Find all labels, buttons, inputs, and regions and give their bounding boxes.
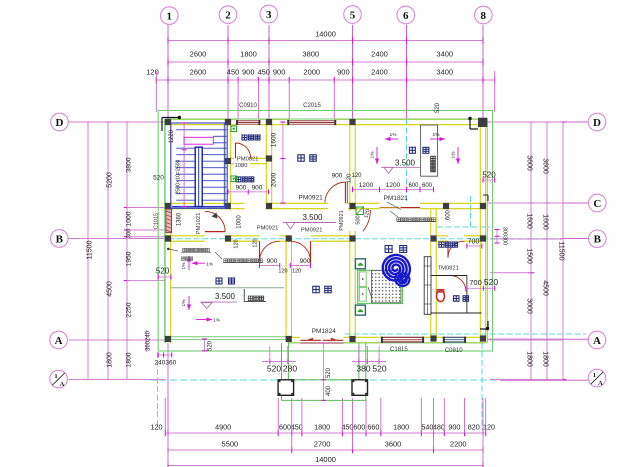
svg-text:1360: 1360 [177, 212, 183, 226]
svg-text:2000: 2000 [271, 172, 278, 187]
door PM1821 leader [387, 202, 401, 210]
right witness horizontals [490, 121, 563, 123]
svg-text:240: 240 [155, 360, 166, 367]
wall axis3 vertical [265, 119, 267, 203]
window C1015 left wall [166, 209, 172, 233]
svg-text:480: 480 [433, 423, 445, 432]
left small dims 240 360 near A [146, 330, 148, 352]
wall D exterior top [165, 118, 236, 120]
staircase center stringer [195, 147, 202, 206]
grid bubble 1/A left [50, 370, 68, 388]
svg-text:520: 520 [372, 364, 386, 374]
svg-text:2400: 2400 [371, 50, 388, 59]
svg-text:1%: 1% [181, 262, 187, 270]
svg-text:TM0821: TM0821 [438, 266, 459, 272]
svg-text:120: 120 [146, 68, 159, 77]
porch left dim 520 vertical [204, 339, 206, 351]
room label secondary bedroom bottom [313, 286, 320, 293]
svg-text:450: 450 [291, 423, 303, 432]
grid axis line 1/A horizontal [69, 379, 151, 381]
right dimension column 3600 1600 1500 3000 1800 [530, 122, 532, 380]
svg-text:2500×10=2500: 2500×10=2500 [175, 159, 181, 194]
room label bathroom right [454, 296, 460, 302]
svg-text:2200: 2200 [450, 440, 467, 449]
left dimension column 3800 1000 300 1950 2250 1800 [126, 122, 128, 380]
balcony slope arrow horizontal bottom [196, 319, 212, 321]
svg-text:900: 900 [252, 184, 263, 191]
dimension row second top [168, 61, 483, 63]
drain note leader and label [243, 289, 245, 302]
handrail note [167, 248, 170, 251]
bed pillows [359, 272, 366, 287]
grid axis 6 cyan centerline balcony [406, 119, 408, 202]
cyan centerline wardrobe horizontal [437, 226, 490, 228]
grid axis line B horizontal [69, 238, 166, 240]
svg-text:1200: 1200 [386, 182, 401, 189]
svg-text:A: A [60, 381, 65, 388]
svg-text:3: 3 [266, 9, 272, 21]
svg-text:D: D [56, 117, 64, 129]
svg-text:B: B [56, 233, 64, 245]
svg-text:1800: 1800 [126, 352, 133, 367]
svg-text:PM0921: PM0921 [298, 195, 323, 202]
wall axis5 vertical upper [349, 125, 351, 204]
water shaft rect [421, 125, 438, 176]
balcony slope arrow left [385, 138, 398, 140]
dim 700 wardrobe [467, 245, 482, 247]
svg-text:520: 520 [208, 340, 214, 351]
svg-text:2250: 2250 [126, 302, 133, 317]
grid bubble C right [589, 194, 607, 212]
svg-text:600: 600 [353, 423, 365, 432]
wall x433.5 vertical closet lower [430, 241, 432, 337]
svg-text:4900: 4900 [215, 423, 231, 432]
svg-text:660: 660 [367, 423, 379, 432]
svg-text:5: 5 [350, 9, 356, 21]
staircase dim line magenta [183, 123, 185, 207]
svg-text:900: 900 [242, 68, 255, 77]
grid axis line 1/A cyan centerline [150, 379, 500, 381]
svg-text:11500: 11500 [558, 242, 565, 261]
grid bubble A right [588, 331, 606, 349]
door PM1021 stair hall [205, 231, 225, 233]
svg-text:2: 2 [225, 10, 231, 22]
grid bubble 3 [260, 5, 278, 23]
svg-text:360: 360 [165, 360, 176, 367]
svg-text:600: 600 [279, 423, 291, 432]
svg-text:6: 6 [403, 10, 409, 22]
bath partition lines [431, 275, 467, 277]
dims 700 520 right bath [467, 287, 495, 289]
bedside table 1 [355, 259, 365, 269]
svg-text:900: 900 [236, 184, 247, 191]
door leaf in axis5 wall [363, 210, 371, 231]
svg-text:C1015: C1015 [154, 213, 160, 229]
balcony slope arrow up [188, 256, 190, 270]
balcony drainage channel line [171, 287, 284, 289]
svg-text:PM0921: PM0921 [257, 226, 279, 232]
svg-text:820: 820 [468, 423, 480, 432]
dimension row third bottom 14000 [168, 465, 483, 467]
porch dims 520 280 [262, 361, 296, 363]
grid bubble 2 [219, 6, 237, 24]
grid bubble B left [51, 230, 69, 248]
svg-text:3.500: 3.500 [395, 158, 416, 167]
grid bubble 6 [397, 6, 415, 24]
svg-text:4500: 4500 [542, 280, 549, 296]
svg-text:PM0921: PM0921 [301, 227, 323, 233]
svg-text:2000: 2000 [303, 68, 320, 77]
svg-text:1%: 1% [433, 132, 441, 138]
svg-text:2700: 2700 [314, 440, 331, 449]
svg-text:600: 600 [408, 183, 419, 189]
grid axis line 8 vertical [482, 25, 484, 124]
svg-text:A: A [55, 335, 63, 347]
bath fixture green square 2 [231, 176, 237, 182]
wall x433.5 vertical closet upper [430, 209, 432, 236]
right dimension column 11500 [562, 122, 564, 380]
grid axis line 2 vertical [227, 25, 229, 124]
grid axis 8 cyan centerline bottom [481, 343, 483, 430]
svg-text:1800: 1800 [240, 50, 257, 59]
staircase treads [176, 147, 226, 149]
svg-text:3800: 3800 [302, 50, 319, 59]
svg-text:3400: 3400 [436, 68, 453, 77]
grid axis line C horizontal [487, 202, 588, 204]
bed sheet fold line [368, 287, 374, 303]
window C0910 top [238, 120, 258, 125]
right dimension column 3600 1600 4500 1800 [546, 122, 548, 380]
balcony slope arrow down-right [457, 147, 459, 164]
svg-text:120: 120 [278, 269, 287, 275]
svg-text:1: 1 [167, 10, 173, 22]
svg-text:900: 900 [267, 258, 278, 265]
svg-text:700: 700 [469, 278, 482, 287]
structural columns dark squares [165, 119, 171, 125]
svg-text:1%: 1% [451, 151, 457, 159]
svg-text:11500: 11500 [87, 240, 94, 259]
cyan centerline wardrobe vertical [470, 196, 472, 227]
porch dims 380 520 [352, 361, 386, 363]
svg-text:C: C [593, 198, 601, 210]
window C1815 bottom [382, 337, 423, 343]
svg-text:C1815: C1815 [390, 347, 408, 353]
threshold note bottom [224, 259, 227, 262]
cyan centerline bottom-left vertical [157, 352, 159, 430]
svg-text:1%: 1% [390, 132, 398, 138]
grid axis line D horizontal [69, 121, 166, 123]
room label secondary bedroom top [298, 155, 305, 162]
wall axis2 stair right [224, 119, 226, 203]
outer slab edge green rectangle [158, 111, 492, 352]
bath fixture green square 1 [231, 126, 237, 132]
svg-text:C0910: C0910 [239, 103, 257, 109]
door wardrobe room on wall B [447, 241, 449, 257]
wall A exterior bottom right part [288, 336, 300, 338]
witness lines bottom [164, 398, 166, 433]
svg-text:PM1824: PM1824 [312, 328, 337, 335]
svg-text:450: 450 [341, 423, 353, 432]
dimension row first bottom [165, 432, 485, 434]
svg-text:1000: 1000 [237, 215, 243, 229]
svg-text:400: 400 [326, 385, 332, 396]
bed quilt blue spiral [383, 255, 410, 283]
section mark bottom-right [480, 328, 488, 330]
svg-text:1800: 1800 [526, 351, 533, 367]
svg-text:360: 360 [146, 340, 152, 351]
wash room dim 900 900 [228, 191, 269, 193]
svg-text:1800: 1800 [393, 423, 409, 432]
room label master bedroom [385, 246, 392, 253]
grid bubble D left [51, 113, 69, 131]
grid axis line A cyan centerline [345, 333, 586, 335]
svg-text:900: 900 [337, 68, 350, 77]
svg-text:1950: 1950 [126, 251, 133, 266]
left dimension column 11500 [87, 122, 89, 380]
svg-text:120: 120 [253, 238, 259, 247]
wash room label [236, 177, 241, 182]
svg-text:1080: 1080 [235, 163, 248, 169]
svg-text:1220: 1220 [169, 129, 175, 143]
svg-text:900: 900 [300, 258, 311, 265]
grid bubble 1/A right [588, 369, 606, 387]
porch column left [278, 380, 294, 396]
svg-text:540: 540 [421, 423, 433, 432]
svg-text:1800: 1800 [542, 351, 549, 367]
svg-text:1%: 1% [181, 299, 187, 307]
svg-text:1600: 1600 [542, 214, 549, 230]
svg-text:1600: 1600 [526, 213, 533, 229]
svg-text:C0910: C0910 [445, 348, 463, 354]
door PM0821 bathroom [235, 143, 237, 158]
grid bubble A left [50, 331, 68, 349]
floor drain green square near column C5 [356, 207, 364, 215]
balcony slope arrow horizontal top [192, 262, 205, 264]
svg-text:1500: 1500 [526, 248, 533, 264]
dim line vertical axis3 1600 2000 [282, 122, 284, 203]
svg-text:C2015: C2015 [303, 103, 321, 109]
svg-text:1%: 1% [206, 262, 214, 268]
section mark top-left [162, 117, 180, 119]
metal rail note [181, 257, 184, 260]
svg-text:520: 520 [484, 277, 498, 287]
wall B interior [165, 235, 204, 237]
svg-text:450: 450 [257, 68, 270, 77]
dimension row third top [156, 79, 494, 81]
toilet red [437, 290, 445, 301]
svg-text:1: 1 [593, 372, 596, 379]
svg-text:2400: 2400 [371, 68, 388, 77]
wall x288.75 vertical bedroom-balcony [285, 241, 287, 337]
bedside table 2 [355, 305, 365, 315]
svg-text:3.500: 3.500 [215, 292, 236, 301]
wall axis1 exterior left [164, 119, 166, 208]
grid axis line 1 vertical [167, 25, 169, 124]
svg-text:600: 600 [446, 209, 452, 220]
svg-text:380: 380 [356, 364, 370, 374]
svg-text:280: 280 [283, 364, 297, 374]
grid bubble 8 [475, 6, 493, 24]
grid axis line A horizontal [69, 339, 166, 341]
svg-text:2600: 2600 [190, 50, 207, 59]
balcony slope arrow right [430, 138, 445, 140]
wall axis5 vertical corridor section [349, 209, 351, 211]
svg-text:3600: 3600 [542, 158, 549, 174]
svg-text:1600: 1600 [271, 132, 278, 147]
svg-text:1000: 1000 [126, 211, 133, 226]
porch vertical dim 520 400 [323, 343, 325, 400]
svg-text:520: 520 [153, 175, 164, 182]
wardrobe closet rectangle [424, 257, 431, 315]
svg-text:PM1021: PM1021 [196, 213, 202, 235]
grid axis line B cyan centerline [168, 238, 560, 240]
balcony slope arrow down-left [376, 147, 378, 164]
svg-text:5200: 5200 [107, 172, 114, 188]
svg-text:520: 520 [435, 102, 441, 113]
left witness horizontals [69, 121, 166, 123]
svg-text:14000: 14000 [315, 30, 336, 39]
room label wardrobe [439, 242, 444, 247]
bed frame [358, 270, 403, 303]
window C2015 top [289, 120, 334, 125]
staircase right rail blue [223, 124, 225, 208]
balcony dim 520 left [158, 276, 171, 278]
svg-text:1%: 1% [213, 318, 221, 324]
svg-text:120: 120 [351, 173, 362, 179]
svg-text:120: 120 [292, 269, 301, 275]
bathroom label top [242, 135, 247, 140]
svg-text:600: 600 [422, 183, 433, 189]
grid bubble B right [589, 230, 607, 248]
door PM1821 balcony leaves [380, 207, 400, 209]
svg-text:120: 120 [483, 423, 495, 432]
svg-text:1: 1 [54, 373, 57, 380]
section mark top-right [469, 118, 471, 129]
grid axis line 6 vertical [406, 25, 408, 124]
svg-text:14000: 14000 [315, 455, 336, 464]
wall C interior [165, 202, 244, 204]
svg-text:120: 120 [234, 239, 240, 248]
svg-text:3.500: 3.500 [302, 213, 323, 222]
grid bubble 5 [344, 6, 362, 24]
svg-text:520: 520 [156, 267, 170, 276]
svg-text:PM0921: PM0921 [339, 210, 345, 231]
svg-text:700: 700 [468, 239, 480, 246]
svg-text:3000: 3000 [526, 298, 533, 314]
witness lines top windows [237, 80, 239, 119]
svg-text:900: 900 [273, 68, 286, 77]
dimension row second bottom [168, 449, 483, 451]
svg-text:D: D [593, 117, 601, 129]
door PM1824 bottom double leaf [300, 339, 321, 341]
porch column right [352, 380, 368, 396]
staircase magenta box [184, 137, 213, 144]
svg-text:120: 120 [151, 423, 163, 432]
svg-text:520: 520 [267, 364, 281, 374]
grid axis line 5 vertical [352, 25, 354, 124]
svg-text:240: 240 [146, 330, 152, 341]
svg-text:8: 8 [481, 10, 487, 22]
svg-text:3600: 3600 [385, 440, 402, 449]
wall axis8 exterior right [479, 119, 481, 343]
balcony label bottom left [216, 278, 222, 284]
svg-text:1200: 1200 [359, 182, 374, 189]
section bracket right wall [483, 194, 488, 196]
wall B dims 900 120 120 900 [260, 265, 280, 267]
left dimension column 5200 4500 1800 [107, 122, 109, 380]
threshold note under PM1821 [390, 211, 398, 217]
wall A balcony parapet left part [165, 336, 288, 338]
grid bubble D right [588, 113, 606, 131]
svg-text:500: 500 [356, 215, 362, 224]
grid bubble 1 [161, 7, 179, 25]
svg-text:A: A [593, 335, 601, 347]
svg-text:520: 520 [482, 171, 496, 180]
svg-text:A: A [598, 380, 603, 387]
bathroom divider wall horizontal [231, 157, 234, 159]
svg-text:2600: 2600 [190, 68, 207, 77]
svg-text:B: B [594, 234, 602, 246]
door PM0921 main on wall C [344, 182, 346, 203]
balcony slope arrow down [188, 296, 190, 310]
svg-text:3600: 3600 [526, 155, 533, 171]
svg-text:PM0821: PM0821 [237, 156, 259, 162]
balcony dim 520 right [483, 179, 495, 181]
window C0910 bottom [444, 337, 465, 343]
svg-text:450: 450 [227, 68, 240, 77]
svg-text:900: 900 [332, 173, 343, 180]
right small dim 300 300 vertical [496, 230, 498, 244]
porch outline green [281, 343, 283, 400]
door PM0921 right on wall B [310, 241, 312, 263]
svg-text:PM1821: PM1821 [384, 195, 409, 202]
svg-text:900: 900 [448, 423, 460, 432]
svg-text:4500: 4500 [107, 281, 114, 297]
water shaft label vertical [431, 156, 436, 161]
svg-text:3800: 3800 [126, 157, 133, 172]
svg-text:520: 520 [326, 367, 332, 378]
column top-right corner large [478, 118, 487, 127]
svg-text:300300: 300300 [502, 227, 508, 245]
grid axis line 3 vertical [268, 25, 270, 124]
wall axis5 vertical lower [349, 241, 351, 337]
door TM0821 bath partition [450, 276, 466, 292]
svg-text:1%: 1% [370, 151, 376, 159]
svg-text:3400: 3400 [436, 50, 453, 59]
svg-text:1800: 1800 [314, 423, 330, 432]
balcony label top right [409, 147, 415, 153]
door PM0921 left on wall B [259, 241, 261, 261]
svg-text:1800: 1800 [107, 352, 114, 368]
balcony dim row 1200 1200 600 600 [353, 188, 434, 190]
staircase outline blue [171, 123, 227, 208]
svg-text:5500: 5500 [222, 440, 239, 449]
dimension row 14000 top [168, 40, 483, 42]
